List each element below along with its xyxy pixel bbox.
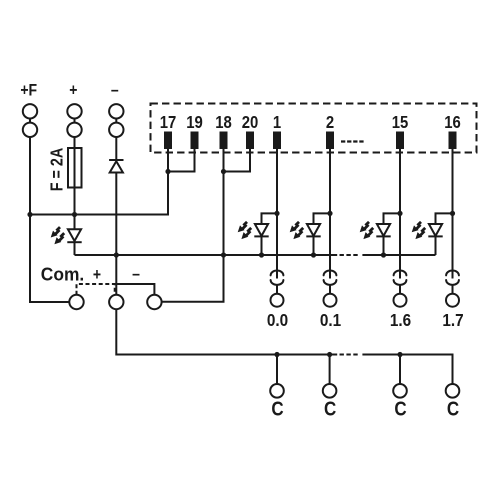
svg-text:+: + [93, 266, 101, 284]
svg-text:–: – [132, 265, 140, 283]
svg-text:15: 15 [392, 113, 409, 132]
svg-text:F = 2A: F = 2A [47, 148, 67, 192]
svg-text:17: 17 [160, 113, 177, 132]
svg-text:+F: +F [20, 81, 37, 99]
svg-text:C: C [447, 397, 459, 420]
svg-text:C: C [394, 397, 406, 420]
svg-text:20: 20 [242, 113, 259, 132]
svg-text:C: C [271, 397, 283, 420]
svg-text:16: 16 [444, 113, 461, 132]
svg-text:18: 18 [215, 113, 232, 132]
svg-text:–: – [111, 81, 119, 99]
svg-text:2: 2 [326, 113, 334, 132]
svg-text:0.0: 0.0 [267, 310, 288, 330]
svg-text:C: C [324, 397, 336, 420]
svg-text:+: + [69, 81, 77, 99]
svg-text:Com.: Com. [41, 264, 84, 285]
svg-text:1.7: 1.7 [442, 310, 463, 330]
svg-text:19: 19 [186, 113, 203, 132]
svg-text:1: 1 [273, 113, 281, 132]
svg-text:0.1: 0.1 [320, 310, 341, 330]
svg-text:1.6: 1.6 [390, 310, 411, 330]
